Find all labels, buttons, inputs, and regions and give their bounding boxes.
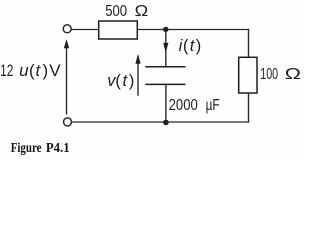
svg-text:v(t): v(t) [107,72,134,90]
wire: capacitor bottom stub to bottom rail [165,84,167,122]
source arrow (12 u(t) V source, pointing up) [64,39,69,114]
svg-text:2000µF: 2000µF [169,97,220,114]
svg-text:500Ω: 500Ω [105,3,148,20]
resistor 100 ohm (body) [239,57,257,93]
wire: top rail, resistor to right corner [137,29,249,31]
wire: bottom rail [72,121,250,123]
wire: right branch upper segment [248,29,250,57]
capacitor 2000 uF: top plate [145,66,185,68]
voltage arrow v(t), pointing up beside capacitor [135,54,140,96]
capacitor 2000 uF: bottom plate [145,83,185,85]
wire: right branch lower segment [248,93,250,123]
node (junction dot) bottom [163,120,169,126]
wire: top rail, terminal to resistor [71,29,99,31]
current arrow i(t), pointing down from top node [163,29,168,66]
svg-text:100Ω: 100Ω [260,66,301,83]
svg-text:12u(t)V: 12u(t)V [0,61,61,80]
terminal (open circle) bottom-left [64,118,72,126]
resistor 500 ohm (body) [99,21,138,39]
svg-text:FigureP4.1: FigureP4.1 [11,140,70,155]
svg-text:i(t): i(t) [179,37,202,55]
node (junction dot) top [163,27,168,32]
terminal (open circle) top-left [63,25,71,33]
